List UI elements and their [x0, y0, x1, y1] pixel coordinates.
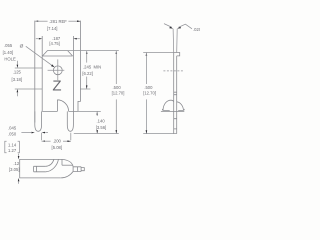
hole centerlines	[48, 59, 65, 80]
svg-text:[3.05]: [3.05]	[9, 167, 19, 172]
dome wings	[162, 109, 184, 111]
seat ext line	[74, 133, 119, 135]
dim .245 MIN	[86, 51, 88, 54]
svg-text:.045: .045	[8, 126, 17, 131]
dim .200	[42, 133, 71, 140]
hole circle	[53, 66, 62, 75]
left ext+body edge	[34, 21, 36, 68]
cap/barb	[174, 53, 180, 56]
svg-text:[3.56]: [3.56]	[96, 125, 106, 130]
svg-text:[6.22]: [6.22]	[82, 71, 92, 76]
right cut line	[72, 36, 74, 111]
thickness arrows	[164, 24, 172, 28]
dim .12	[18, 154, 20, 156]
left tab bar	[34, 166, 46, 172]
dim .281 REF	[35, 20, 38, 22]
svg-text:.140: .140	[97, 118, 106, 123]
svg-text:[12.70]: [12.70]	[112, 90, 125, 95]
top ext line side	[143, 52, 174, 54]
svg-text:HOLE: HOLE	[4, 57, 16, 62]
svg-text:.055: .055	[4, 43, 13, 48]
leg bend marks	[174, 119, 177, 129]
hidden hole line	[163, 70, 183, 72]
right tab bar	[73, 167, 81, 172]
dim .125	[16, 61, 18, 65]
bend marks	[174, 92, 177, 95]
left leg	[35, 111, 42, 131]
bend stub y89 left	[15, 88, 42, 90]
svg-text:.020: .020	[193, 27, 200, 32]
side bar	[174, 53, 177, 134]
dome (curled tabs edge-on)	[163, 100, 184, 110]
bend stub y89 right	[80, 88, 90, 90]
thickness ext lines	[173, 29, 177, 53]
svg-text:.125: .125	[13, 70, 22, 75]
svg-text:.281 REF: .281 REF	[49, 19, 67, 24]
right leg	[67, 111, 73, 131]
dim .500 side	[146, 53, 148, 56]
svg-text:Ø: Ø	[20, 43, 24, 49]
hat bottom edge	[42, 55, 72, 57]
svg-text:1.14: 1.14	[8, 143, 17, 148]
svg-text:1.27: 1.27	[8, 148, 17, 153]
left tab curls	[46, 159, 59, 171]
hole leader	[26, 46, 52, 65]
svg-text:[12.70]: [12.70]	[143, 90, 156, 95]
dome base line	[161, 111, 184, 113]
svg-text:.12: .12	[13, 161, 19, 166]
body bottom edges	[42, 110, 78, 112]
pierce flap chord	[56, 100, 58, 112]
dim .187	[36, 38, 39, 40]
right tab curls	[61, 159, 73, 178]
dim .500 front	[116, 51, 118, 54]
rect right corner	[61, 159, 63, 165]
right tab root	[62, 164, 73, 166]
svg-text:.200: .200	[53, 138, 62, 143]
svg-text:[7.14]: [7.14]	[47, 26, 57, 31]
top ext line	[68, 50, 119, 52]
svg-text:[3.18]: [3.18]	[12, 77, 22, 82]
bend stub y68	[15, 67, 42, 69]
seat line side	[143, 133, 177, 135]
dim .140	[96, 111, 98, 114]
pierce flap arc	[57, 100, 68, 112]
body rect	[20, 159, 62, 178]
hat top with chamfers	[42, 51, 72, 56]
svg-text:.245 MIN: .245 MIN	[83, 65, 101, 70]
svg-text:[1.40]: [1.40]	[3, 50, 13, 55]
ext line .140	[78, 110, 101, 112]
right ext+body edge	[78, 21, 80, 112]
svg-text:[5.08]: [5.08]	[52, 145, 62, 150]
bracket values 1.14 / 1.27	[5, 141, 20, 153]
svg-text:Z: Z	[52, 77, 61, 94]
left cut line	[41, 36, 43, 111]
right tab nub	[81, 168, 84, 171]
svg-text:[4.75]: [4.75]	[49, 41, 59, 46]
svg-text:.050: .050	[8, 132, 17, 137]
